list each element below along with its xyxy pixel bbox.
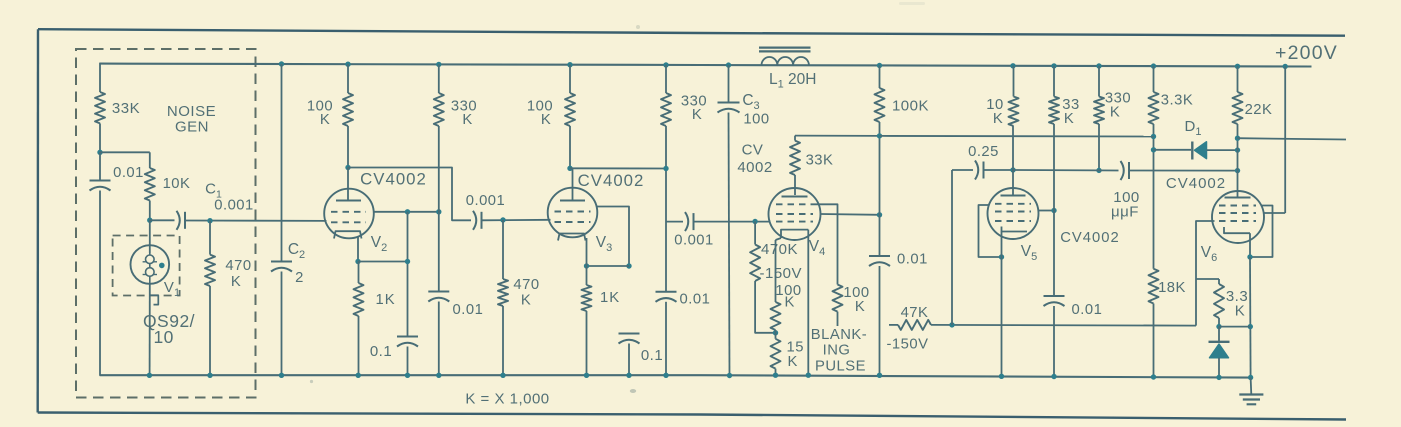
svg-text:GEN: GEN: [175, 119, 209, 136]
wire 0.1 V3 to bus: [628, 344, 630, 376]
inductor L1 winding: [762, 57, 809, 65]
node C2 bus: [279, 373, 284, 378]
wire C3 to bus: [729, 113, 730, 376]
wire 0.01 V3 branch bus: [665, 302, 667, 376]
node 0.25 branch: [949, 322, 954, 327]
svg-text:CV: CV: [742, 142, 764, 159]
node 33K row join: [877, 133, 882, 138]
wire 100K to plate node: [347, 126, 349, 168]
node V2 output/330K: [436, 209, 441, 214]
svg-text:CV4002: CV4002: [1060, 230, 1119, 246]
wire 33K to V4 plate: [794, 175, 796, 195]
resistor 3.3K: [1149, 92, 1159, 124]
svg-text:K: K: [541, 112, 551, 128]
wire blanking stub: [837, 312, 839, 326]
wire 1K V3 bus: [586, 311, 588, 375]
capacitor 0.01 V3 branch: [656, 291, 677, 293]
node V3 cathode: [584, 263, 589, 268]
wire 100K top lead: [347, 64, 349, 93]
node V6 bus: [1248, 375, 1253, 380]
ground bus wire: [100, 375, 1251, 377]
wire 330K r top: [1098, 66, 1100, 97]
wire 0.25 to plate node: [984, 169, 1014, 171]
wire 22K down: [1237, 124, 1239, 198]
wire 470K grid top: [502, 220, 504, 279]
wire C2 to bus: [281, 272, 283, 376]
svg-text:3.3K: 3.3K: [1161, 93, 1193, 109]
wire plate node to coupling: [348, 168, 471, 221]
wire 22K top: [1237, 66, 1239, 92]
wire 10K to plate node: [1012, 126, 1014, 170]
node 100K rail: [345, 61, 350, 66]
resistor 330K V2: [434, 93, 444, 126]
wire 470K V4 down: [755, 281, 775, 333]
svg-text:0.1: 0.1: [370, 343, 392, 360]
wire V1 anode lead: [149, 220, 151, 253]
resistor 470K V3 grid: [498, 279, 508, 306]
V1 upper electrode: [146, 255, 155, 264]
tube V6 envelope: [1212, 191, 1264, 243]
resistor 100K blanking: [833, 285, 843, 312]
V5 plate bar: [1001, 195, 1026, 197]
wire 10K to node: [149, 201, 151, 221]
wire V6 cathode lead: [1249, 233, 1251, 257]
wire 1K to bus: [358, 316, 360, 375]
wire 100K to V3 plate node: [569, 126, 571, 168]
capacitor 0.01 V2: [428, 291, 449, 293]
svg-text:4002: 4002: [737, 159, 772, 176]
capacitor C3: [718, 102, 740, 104]
node V1 bus: [147, 373, 152, 378]
node 0.1 V3 bus: [626, 373, 631, 378]
wire 3.3K down: [1153, 124, 1155, 269]
wire row A right: [1238, 138, 1347, 139]
diode D1 triangle: [1195, 142, 1207, 159]
node 33K/0.01/10K junction: [97, 150, 102, 155]
svg-text:K: K: [855, 299, 865, 315]
node 0.1 tee top: [405, 209, 410, 214]
wire 0.01 to bus: [99, 191, 101, 376]
wire V6 grid row3 out: [1196, 221, 1215, 326]
svg-text:10: 10: [153, 327, 173, 347]
node V3 plate row join: [663, 166, 668, 171]
node V5 plate: [1010, 167, 1015, 172]
wire 33K branch top: [99, 63, 101, 92]
svg-text:ING: ING: [823, 343, 851, 359]
svg-text:+200V: +200V: [1275, 42, 1338, 64]
resistor 33K noise gen: [95, 92, 105, 123]
svg-text:0.01: 0.01: [113, 165, 144, 181]
resistor 3.3K V6: [1214, 284, 1224, 318]
svg-text:K: K: [1110, 105, 1120, 121]
V6 plate bar: [1225, 197, 1251, 199]
wire V3 plate row: [570, 167, 666, 169]
capacitor 0.01 V5: [1044, 295, 1065, 297]
wire 3.3K V6 down: [1218, 318, 1220, 327]
resistor 22K: [1233, 92, 1243, 124]
wire V4 grid row2 out: [821, 213, 880, 216]
border frame: [38, 29, 1345, 36]
node V6 3.3K row: [1248, 324, 1253, 329]
wire 10K top: [1013, 66, 1015, 97]
V3 cathode: [558, 234, 586, 241]
svg-text:33K: 33K: [112, 100, 140, 117]
noise generator dashed enclosure: [76, 49, 256, 398]
wire 33K V4 top row: [795, 135, 880, 137]
svg-text:470: 470: [225, 258, 251, 274]
wire jog to coupling cap: [666, 221, 683, 223]
svg-text:2: 2: [295, 270, 304, 286]
svg-text:BLANK-: BLANK-: [811, 327, 867, 343]
node row A end: [1151, 134, 1156, 139]
wire 470K top: [209, 221, 211, 255]
capacitor 0.25: [975, 161, 978, 180]
svg-text:PULSE: PULSE: [815, 359, 866, 375]
wire uuF row left: [1013, 169, 1099, 171]
paper speck B: [310, 380, 313, 383]
paper speck C: [636, 25, 640, 29]
wire 0.01 to bus: [438, 302, 440, 376]
node 330K rail r: [1096, 63, 1101, 68]
wire D1 row left: [1154, 149, 1192, 151]
svg-text:0.01: 0.01: [1072, 302, 1103, 318]
wire 100K V4col down: [879, 122, 881, 256]
svg-text:μμF: μμF: [1111, 204, 1139, 221]
V1 starter hook: [150, 295, 159, 304]
resistor 330K right: [1094, 97, 1104, 125]
wire 330K r down: [1098, 124, 1100, 170]
wire 470K to bus: [209, 286, 211, 375]
capacitor C1 0.001: [177, 211, 180, 230]
svg-text:K: K: [462, 112, 472, 128]
resistor 10K: [145, 168, 155, 201]
node uuF right: [1235, 168, 1240, 173]
inductor L1 core lines: [759, 46, 811, 48]
node 330K rail: [436, 62, 441, 67]
wire 0.1 to bus: [407, 347, 409, 376]
node 100uuF left: [1096, 168, 1101, 173]
wire C3 upper: [728, 65, 730, 102]
node V6 cathode: [1247, 254, 1252, 259]
wire V6 row2 link: [1264, 212, 1286, 214]
node C2 rail: [279, 61, 284, 66]
wire cap to V4 grid: [694, 221, 771, 223]
wire V6 cathode down: [1249, 257, 1252, 378]
wire V3 grid2 loop: [597, 207, 629, 267]
V1 anode dot: [159, 263, 165, 269]
wire 330K V3 down: [665, 126, 667, 292]
node V4 divider: [773, 330, 778, 335]
node V4 grid input: [752, 219, 757, 224]
wire right vertical: [1284, 66, 1286, 213]
wire V6 row1 loop: [1252, 206, 1273, 258]
wire junction to 10K: [100, 151, 150, 153]
wire C2 branch upper: [281, 64, 283, 262]
wire 470K grid to bus: [502, 306, 504, 375]
svg-text:K: K: [993, 111, 1003, 127]
node 33K rail r: [1051, 63, 1056, 68]
wire 33K top stub: [794, 136, 796, 141]
resistor 10K V5: [1009, 97, 1019, 127]
wire V2 cathode lead: [357, 236, 359, 262]
svg-text:100: 100: [743, 112, 769, 128]
tube V4 envelope: [769, 188, 821, 240]
node 0.01 V4 bus: [877, 373, 882, 378]
resistor 470K V4: [750, 245, 760, 282]
svg-text:0.01: 0.01: [680, 292, 711, 308]
resistor 470K noise gen: [205, 255, 215, 286]
svg-text:K: K: [231, 274, 241, 290]
node V5 cathode bus: [999, 374, 1004, 379]
svg-text:10K: 10K: [163, 176, 191, 192]
node 330K V3 bus: [663, 373, 668, 378]
svg-text:CV4002: CV4002: [360, 170, 427, 189]
wire V5 grid loop: [979, 205, 1000, 257]
resistor 33K right: [1049, 97, 1059, 125]
svg-text:33K: 33K: [806, 153, 834, 169]
node diode2 bus: [1216, 375, 1221, 380]
paper speck A: [630, 389, 636, 393]
node C3 rail: [726, 62, 731, 67]
svg-text:K: K: [788, 354, 798, 370]
V2 plate bar: [336, 200, 361, 202]
V3 plate bar: [560, 200, 585, 202]
wire 47K row: [931, 324, 1196, 327]
node +200V right: [1283, 64, 1288, 69]
wire 33K r down: [1053, 124, 1055, 296]
svg-text:K = X 1,000: K = X 1,000: [465, 391, 549, 408]
svg-text:-150V: -150V: [887, 337, 929, 353]
wire 0.25 branch vertical: [951, 170, 953, 325]
diode D1 bar: [1191, 142, 1193, 160]
wire node to 15K: [775, 333, 777, 339]
node 100K rail V4: [877, 63, 882, 68]
node V4 row2 join: [877, 212, 882, 217]
V2 grid row1: [331, 211, 366, 213]
svg-text:470K: 470K: [761, 241, 798, 258]
node 470K grid bus: [500, 373, 505, 378]
svg-text:0.001: 0.001: [466, 193, 506, 209]
wire 33K r top: [1053, 66, 1055, 97]
wire 3.3K top: [1153, 66, 1155, 92]
wire 3.3K V6 top: [1218, 279, 1220, 284]
svg-text:CV4002: CV4002: [1166, 175, 1226, 192]
V5 cathode: [1002, 227, 1028, 232]
resistor 47K: [898, 320, 931, 330]
wire 3.3K row: [1219, 326, 1250, 328]
V3 plate lead: [572, 168, 574, 201]
resistor 100K V4 column: [875, 88, 885, 122]
node 0.01 V5 bus: [1051, 374, 1056, 379]
V3 grid row2: [555, 221, 591, 223]
node D1 row left: [1151, 147, 1156, 152]
svg-text:0.1: 0.1: [641, 347, 663, 364]
node D1 row right: [1235, 147, 1240, 152]
resistor 1K V2: [354, 283, 364, 316]
svg-text:100K: 100K: [892, 98, 929, 115]
svg-text:0.25: 0.25: [968, 144, 999, 160]
V1 lower electrode: [146, 268, 155, 277]
node V2 plate: [345, 165, 350, 170]
wire cathode 100K branch: [775, 240, 777, 302]
wire 330K down: [438, 126, 440, 292]
wire D1 row right: [1207, 149, 1238, 151]
+200V supply rail: [100, 64, 1312, 67]
V5 grid row2: [995, 211, 1031, 213]
-150V stub: [889, 324, 898, 326]
svg-text:18K: 18K: [1158, 280, 1186, 296]
node cathode row right: [405, 259, 410, 264]
V5 grid row3: [995, 220, 1031, 222]
wire grid to 3.3K: [1196, 278, 1219, 280]
wire 100K V3 top: [569, 65, 571, 93]
node 3.3K rail: [1151, 63, 1156, 68]
V4 grid row1: [776, 203, 813, 205]
svg-text:CV4002: CV4002: [578, 171, 645, 190]
wire 100K V4col top: [879, 66, 881, 89]
svg-text:1K: 1K: [600, 290, 620, 306]
node V2 cathode: [355, 259, 360, 264]
capacitor 0.1 V2: [397, 336, 418, 338]
wire 18K to bus: [1153, 304, 1155, 378]
V2 cathode: [334, 231, 362, 238]
ground symbol: [1239, 393, 1263, 395]
wire cap to V3 grid: [482, 219, 551, 222]
wire node to C1: [150, 219, 175, 221]
diode D2 bar: [1209, 341, 1230, 343]
svg-text:K: K: [521, 293, 531, 309]
wire 1K V3 top: [586, 266, 588, 285]
V1 inner dashed box: [113, 236, 180, 296]
wire V5 cathode lead: [1001, 232, 1003, 258]
svg-text:K: K: [320, 112, 330, 128]
svg-text:1K: 1K: [376, 292, 396, 308]
node 22K rail: [1235, 64, 1240, 69]
node 1K V3 bus: [584, 373, 589, 378]
V6 grid row1: [1219, 205, 1256, 207]
svg-text:0.001: 0.001: [674, 233, 714, 249]
V5 grid row1: [995, 203, 1031, 205]
node grid V1/C1: [147, 218, 152, 223]
wire 15K to bus: [775, 369, 777, 376]
node 100K V3 rail: [567, 62, 572, 67]
V2 plate lead: [347, 168, 349, 202]
V4 cathode: [781, 230, 808, 238]
resistor 15K: [771, 339, 781, 369]
svg-text:K: K: [1064, 111, 1074, 127]
wire V5 cathode to bus: [1001, 257, 1003, 376]
tube V5 envelope: [988, 188, 1039, 239]
wire 33K to junction: [99, 123, 101, 152]
wire 0.25 branch horiz: [952, 169, 973, 171]
wire 100K cathode to node: [775, 330, 777, 333]
V6 grid row3: [1219, 220, 1256, 222]
wire V2 grid2 output: [373, 211, 439, 213]
resistor 1K V3: [582, 285, 592, 311]
V4 grid row3: [776, 221, 813, 223]
node 0.1 bus: [405, 373, 410, 378]
wire V3 cathode lead: [586, 238, 588, 266]
tube V1 envelope: [131, 245, 170, 284]
paper speck D: [899, 2, 925, 5]
node V3 plate: [567, 166, 572, 171]
node 1K bus: [356, 373, 361, 378]
wire diode2 top: [1218, 327, 1220, 342]
svg-text:L1 20H: L1 20H: [769, 71, 817, 91]
resistor 18K: [1149, 269, 1159, 304]
V4 grid row2: [776, 213, 813, 215]
node C3 bus: [727, 373, 732, 378]
node V4 cathode bus: [806, 373, 811, 378]
svg-text:NOISE: NOISE: [167, 103, 216, 120]
V2 grid row2: [331, 221, 366, 223]
wire diode2 to bus: [1218, 358, 1220, 378]
resistor 330K V3: [661, 93, 671, 126]
wire ground lead: [1250, 378, 1253, 395]
node 330K V3 rail: [663, 62, 668, 67]
capacitor 0.001 interstage B: [685, 212, 688, 231]
capacitor 0.01 V4: [869, 255, 890, 257]
node 330K bus: [436, 373, 441, 378]
wire V5 plate lead: [1012, 170, 1014, 196]
node 10K rail: [1010, 63, 1015, 68]
resistor 100K V3: [565, 93, 575, 126]
wire uuF row right: [1129, 170, 1238, 172]
wire 0.01 V4 to bus: [879, 266, 881, 375]
resistor 33K V4: [790, 141, 800, 175]
resistor 100K V2 plate: [343, 93, 353, 126]
wire V1 cathode lead: [149, 284, 151, 376]
wire row A: [880, 135, 1154, 138]
wire 330K V3 top: [665, 65, 667, 93]
capacitor 0.01 noise gen: [99, 152, 101, 180]
node 470K bus: [207, 373, 212, 378]
node 22K row A: [1235, 136, 1240, 141]
node V5 out 33K: [1051, 208, 1056, 213]
svg-text:-150V: -150V: [760, 265, 803, 282]
resistor 100K cathode: [771, 302, 781, 330]
wire 10K top: [149, 152, 151, 168]
wire C1 to V2 grid: [185, 220, 327, 222]
wire V4 grid row1 out: [813, 204, 838, 284]
capacitor C2: [271, 261, 292, 263]
V6 grid row2: [1219, 212, 1256, 214]
capacitor 100uuF: [1121, 161, 1124, 180]
wire 0.1 branch vertical: [407, 212, 409, 337]
tube V2 envelope: [324, 189, 374, 239]
svg-text:0.001: 0.001: [214, 198, 254, 214]
svg-text:470: 470: [513, 277, 539, 293]
wire 470K V4 top: [754, 222, 756, 245]
node V5 cathode: [999, 254, 1004, 259]
wire cathode row: [358, 261, 408, 263]
tube V3 envelope: [548, 188, 598, 238]
diode D2 triangle: [1210, 344, 1229, 358]
node V3 0.1 tee: [626, 263, 631, 268]
svg-text:K: K: [1235, 303, 1246, 320]
wire V1 inner lead: [149, 253, 151, 284]
svg-text:K: K: [692, 107, 702, 123]
wire V4 cathode lead: [807, 230, 809, 375]
wire 1K top: [358, 262, 360, 284]
capacitor 0.1 V3: [619, 333, 640, 335]
V6 cathode: [1224, 227, 1250, 233]
svg-text:0.01: 0.01: [453, 302, 484, 318]
node 3.3K bottom: [1216, 324, 1221, 329]
svg-text:47K: 47K: [901, 305, 929, 321]
svg-text:K: K: [785, 295, 795, 311]
wire V5 grid2 out: [1038, 210, 1054, 212]
